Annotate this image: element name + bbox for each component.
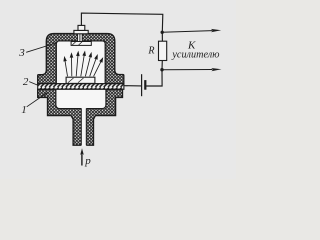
resistor R: [159, 41, 167, 60]
cup cavity (white): [56, 89, 106, 108]
top electrode 3: [71, 42, 91, 46]
wire: terminal to top junction: [81, 13, 162, 41]
chamber interior (white): [56, 41, 105, 84]
field arrows fan: [64, 52, 103, 77]
svg-text:R: R: [147, 46, 154, 57]
feedthrough insulator gap in housing top: [78, 33, 83, 42]
wire: battery to membrane: [124, 85, 141, 87]
bottom electrode 1: [66, 77, 95, 83]
node: bottom junction: [160, 68, 163, 71]
pressure arrow p: [81, 153, 83, 166]
svg-text:2: 2: [23, 76, 29, 88]
svg-text:1: 1: [21, 104, 27, 116]
wire: top output with arrow: [162, 31, 212, 33]
membrane 2 (diagonally hatched plate): [38, 84, 124, 90]
svg-text:усилителю: усилителю: [171, 48, 219, 60]
svg-text:3: 3: [18, 47, 25, 59]
chamber housing dome (cross-hatched): [38, 34, 124, 84]
battery cell: [141, 74, 143, 96]
svg-text:p: p: [84, 155, 91, 167]
paper background: [0, 0, 236, 179]
lower housing cup with tube (cross-hatched): [38, 89, 123, 145]
tube channel (white): [81, 107, 86, 146]
wire: resistor to bottom junction: [146, 61, 162, 87]
terminal base on housing: [74, 30, 88, 33]
wire: bottom output with arrow: [162, 69, 213, 71]
node: top junction: [161, 31, 164, 34]
feedthrough pin: [78, 33, 83, 42]
terminal cap: [78, 25, 85, 30]
